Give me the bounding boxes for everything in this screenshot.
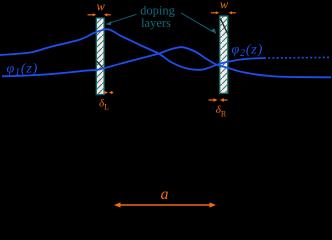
delta_L marker arrows <box>104 91 113 94</box>
doping layer left bar <box>96 18 104 95</box>
w marker left arrows <box>88 13 111 16</box>
curve phi1 dashed tail <box>264 56 331 59</box>
doping layers right arrow <box>181 13 216 34</box>
svg-text:φ2(z): φ2(z) <box>232 43 264 60</box>
w marker right arrows <box>211 11 236 14</box>
svg-text:w: w <box>97 0 106 14</box>
curve phi2 <box>2 47 331 77</box>
svg-text:layers: layers <box>141 16 171 30</box>
svg-text:a: a <box>161 186 169 203</box>
svg-text:φ1(z): φ1(z) <box>7 61 39 78</box>
delta_R marker arrows <box>209 98 228 102</box>
dark stroke in right bar <box>220 19 228 35</box>
wire <box>0 29 331 77</box>
doping layers left arrow <box>106 14 137 25</box>
doping layer right bar <box>220 16 228 93</box>
svg-text:w: w <box>220 0 229 12</box>
a distance arrow <box>114 202 216 207</box>
curve phi1 solid part <box>0 29 264 70</box>
dark stroke in left bar <box>97 61 104 68</box>
